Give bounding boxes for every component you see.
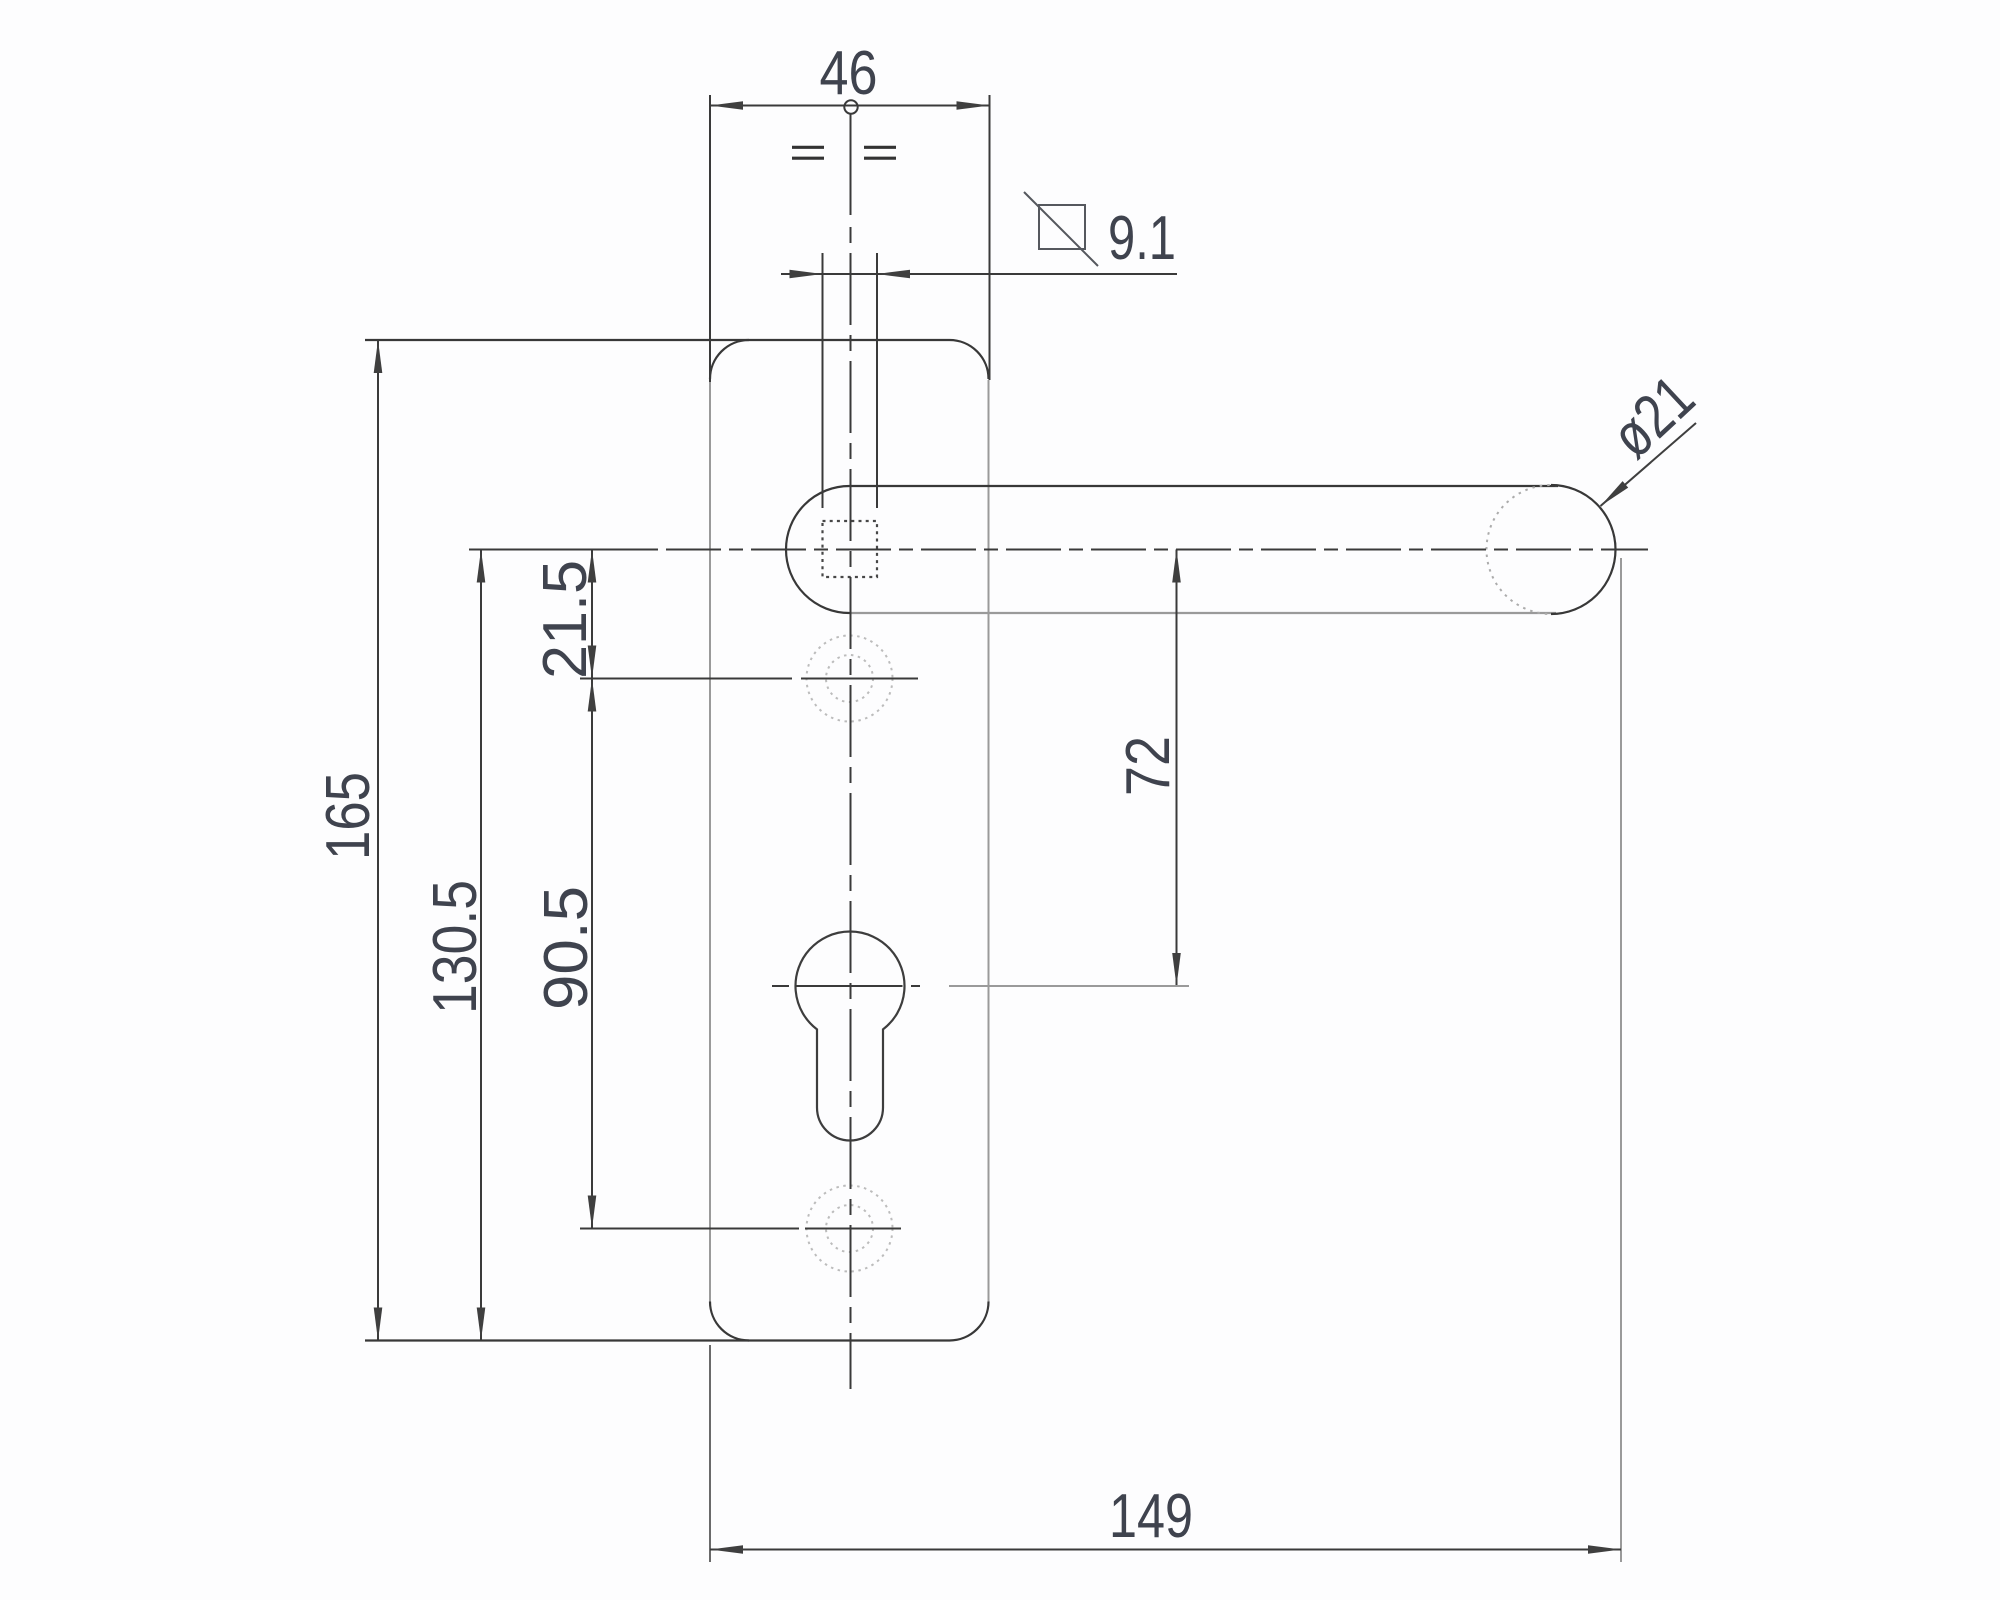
lever end solid arc bbox=[1551, 485, 1616, 614]
backplate bottom edge (merged with dim 165 bottom extension line) bbox=[365, 1339, 950, 1341]
svg-text:90.5: 90.5 bbox=[532, 886, 601, 1010]
dim 9.1 line bbox=[781, 273, 1177, 275]
bottom screw crosshair bbox=[580, 1228, 799, 1230]
vertical centerline bbox=[850, 114, 852, 216]
backplate top edge (merged with dim 165 top extension line) bbox=[365, 339, 950, 341]
dim 9.1 extension lines bbox=[822, 253, 824, 508]
backplate bottom-left corner arc bbox=[710, 1302, 749, 1341]
svg-text:21.5: 21.5 bbox=[531, 560, 600, 679]
backplate top-left corner arc bbox=[710, 340, 749, 379]
spindle square hole (dotted) bbox=[823, 521, 878, 577]
backplate bottom-right corner arc bbox=[950, 1302, 989, 1341]
lever top edge bbox=[850, 485, 1559, 487]
top screw crosshair bbox=[580, 678, 792, 680]
dim 46 extension lines bbox=[709, 95, 711, 382]
dim 21.5 / 90.5 line bbox=[591, 550, 593, 1229]
horizontal centerline dash-dot bbox=[666, 549, 1648, 551]
lever bottom edge bbox=[850, 612, 1557, 614]
top screw hole (dotted circles) bbox=[807, 636, 893, 722]
svg-text:ø21: ø21 bbox=[1598, 363, 1707, 471]
lever end hidden circle (dotted) bbox=[1487, 485, 1616, 614]
dim 72 line bbox=[1176, 550, 1178, 987]
backplate left edge bbox=[709, 382, 711, 1302]
dim 149 line bbox=[710, 1549, 1621, 1551]
euro cylinder keyhole bbox=[796, 932, 905, 1141]
dim 165 line bbox=[377, 340, 379, 1341]
svg-text:149: 149 bbox=[1109, 1482, 1193, 1551]
svg-text:165: 165 bbox=[314, 772, 383, 860]
dim 46 line bbox=[710, 105, 990, 107]
svg-text:72: 72 bbox=[1114, 736, 1183, 796]
backplate top-right corner arc bbox=[950, 340, 989, 379]
equality marks bbox=[792, 147, 896, 158]
svg-text:46: 46 bbox=[820, 39, 878, 108]
center mark circle bbox=[844, 100, 857, 113]
dim 72 extension bbox=[949, 985, 1189, 987]
cylinder crosshair bbox=[772, 985, 920, 987]
backplate right edge bbox=[988, 380, 990, 1302]
lever handle left cap bbox=[786, 486, 850, 613]
svg-text:130.5: 130.5 bbox=[421, 880, 490, 1014]
dia 21 leader bbox=[1601, 423, 1697, 506]
dim 149 extension lines bbox=[709, 1345, 711, 1562]
svg-text:9.1: 9.1 bbox=[1108, 204, 1176, 273]
square symbol bbox=[1039, 205, 1085, 249]
bottom screw hole (dotted circles) bbox=[807, 1186, 893, 1272]
horizontal centerline solid start bbox=[469, 549, 658, 551]
dim 130.5 line bbox=[480, 550, 482, 1341]
